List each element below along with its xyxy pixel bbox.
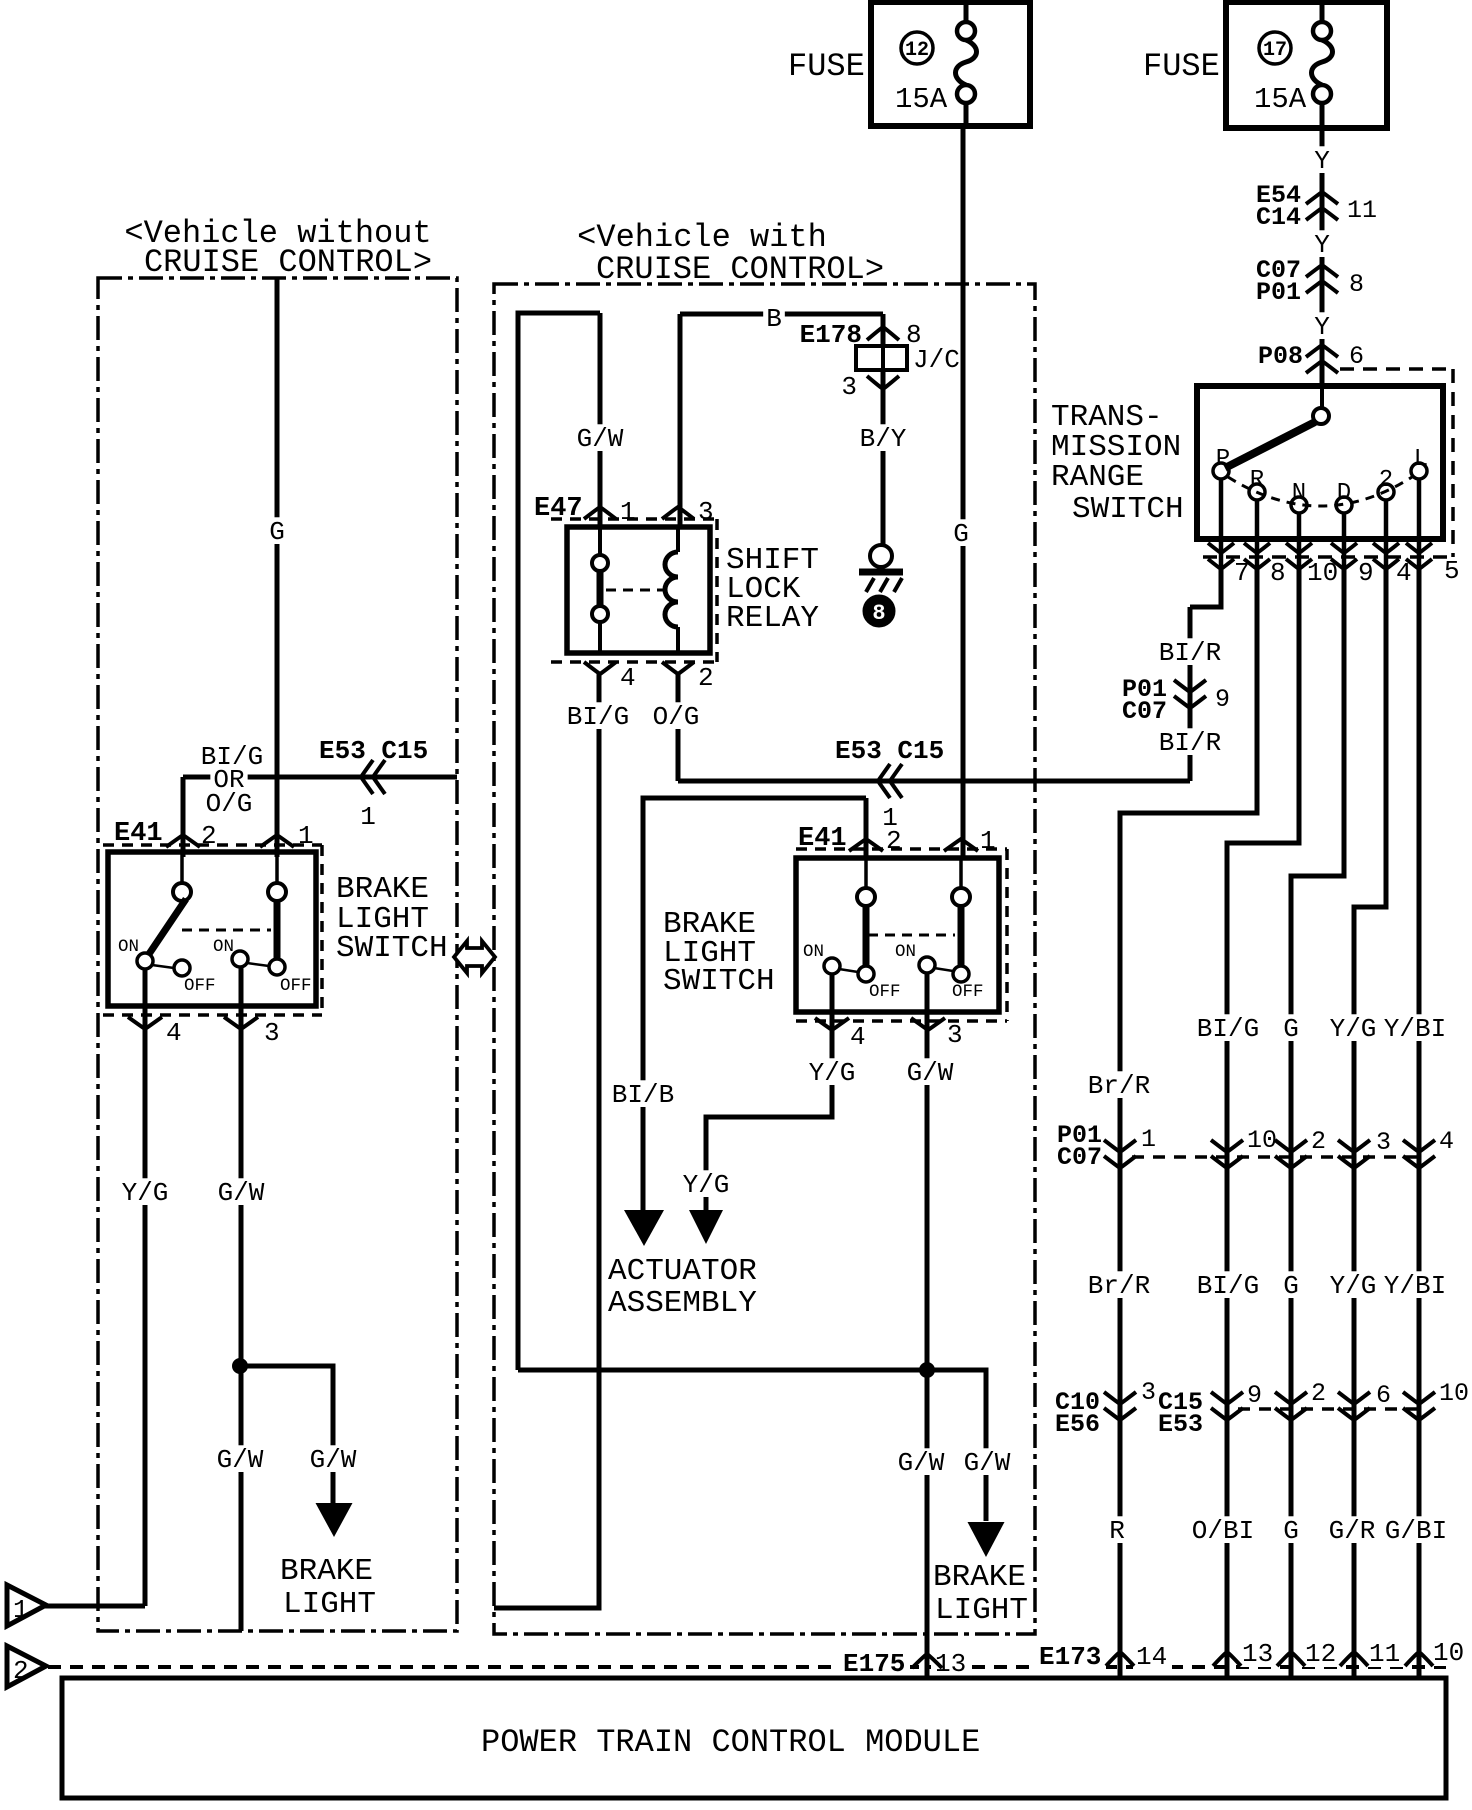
ground symbol [859,545,903,592]
svg-text:4: 4 [620,663,636,693]
TRS pin 4 stub [1384,500,1389,570]
wire Y/G from TRS pin 4 [1354,568,1386,1678]
svg-text:OFF: OFF [869,982,901,1002]
wire G (left box) [275,278,280,857]
connector P08 pin 6 [1258,342,1364,373]
svg-text:Y: Y [1314,230,1330,260]
brake light switch E41 (left) label [114,819,163,849]
svg-text:9: 9 [1358,558,1374,588]
svg-text:G/W: G/W [217,1445,264,1475]
wire B/Y to ground [881,370,886,545]
svg-text:1: 1 [360,802,376,832]
label BI/G (upper) [1194,1014,1263,1044]
label BI/G (lower) [1194,1271,1263,1301]
svg-text:CRUISE CONTROL>: CRUISE CONTROL> [596,251,884,288]
shift lock relay pin 1 [584,497,636,527]
connector E173 pins 14 13 12 11 10 [1034,1638,1469,1672]
shift lock relay pin 2 [662,662,714,693]
switch contact OFF right (middle E41) [953,966,969,982]
TRS dashed arc [1228,477,1412,506]
TRS pin 8 connector [1244,543,1286,588]
TRS pin 10 connector [1286,543,1338,588]
svg-text:Y/G: Y/G [809,1058,856,1088]
junction connector E178 pin 8 [800,314,922,350]
svg-text:11: 11 [1347,196,1377,225]
svg-text:E175: E175 [843,1649,905,1679]
svg-text:1: 1 [980,826,996,856]
brake light switch E41 (left) pin 4 [128,1017,182,1048]
TRS contact L [1411,446,1428,479]
wire G/W (left box) [239,966,244,1631]
svg-text:OFF: OFF [952,982,984,1002]
caption BRAKE LIGHT SWITCH (left) [336,872,448,966]
label OFF (middle E41 first) [869,982,901,1002]
svg-text:8: 8 [1349,270,1364,299]
label G/W (left upper) [215,1178,268,1208]
svg-text:SWITCH: SWITCH [663,964,775,999]
wire B loop left branch [518,313,600,1370]
caption SHIFT LOCK RELAY [726,543,819,636]
label B/Y [857,424,910,454]
fuse F17 circled 17 [1259,32,1291,64]
TRS pin 7 connector [1208,543,1250,588]
label G/W (left lower 2) [307,1445,360,1475]
svg-text:ON: ON [118,937,139,957]
svg-text:15A: 15A [895,83,948,116]
fuse F12 element [956,2,977,126]
svg-text:LIGHT: LIGHT [935,1593,1028,1628]
svg-text:P08: P08 [1258,342,1303,371]
svg-text:BI/R: BI/R [1159,638,1221,668]
transmission range switch box [1197,386,1443,539]
label Y/G (middle lower) [680,1170,733,1200]
svg-text:2: 2 [698,663,714,693]
svg-text:D: D [1337,480,1351,507]
brake light switch E41 (middle) label [798,824,847,854]
svg-text:G/R: G/R [1329,1516,1376,1546]
switch contact right-top (left E41) [268,852,286,901]
wire G/W branch to brake light (middle) [927,1370,986,1521]
TRS pin 8 stub [1255,500,1260,570]
caption ACTUATOR ASSEMBLY [608,1254,757,1321]
wire Y from fuse 17 to transmission range switch [1320,128,1325,386]
caption vehicle without cruise control [124,215,432,281]
TRS pin 5 connector [1406,543,1460,586]
dashed link inside middle E41 [868,934,955,937]
wire Y/G (left box) [45,968,145,1606]
label ON (left E41 second) [213,937,234,957]
svg-text:G/W: G/W [907,1058,954,1088]
svg-text:2: 2 [1311,1379,1326,1408]
svg-text:OFF: OFF [280,976,312,996]
shift lock relay pin 4 [584,662,636,693]
label G/BI (bottom) [1382,1516,1451,1546]
brake light switch E41 (middle) dashed outline [796,849,1007,1021]
svg-text:Br/R: Br/R [1088,1071,1150,1101]
svg-text:B/Y: B/Y [860,424,907,454]
svg-text:C14: C14 [1256,203,1301,232]
svg-text:14: 14 [1136,1642,1167,1672]
caption BRAKE LIGHT (left) [280,1554,376,1622]
svg-text:O/BI: O/BI [1192,1516,1254,1546]
fuse F12 box [871,2,1030,126]
TRS contact P [1213,446,1230,479]
svg-text:G/W: G/W [310,1445,357,1475]
label Y/G (col upper) [1327,1014,1380,1044]
svg-text:17: 17 [1263,39,1287,62]
label BI/R (upper) [1156,638,1225,668]
shift lock relay E47 label [534,494,583,524]
svg-text:BRAKE: BRAKE [280,1554,373,1589]
label Y (2) [1311,230,1333,260]
svg-text:SWITCH: SWITCH [1072,492,1184,527]
label BI/G OR O/G [201,742,263,819]
arrow Y/G to actuator assembly [689,1210,723,1244]
brake light switch E41 (left) pin 1 [260,821,314,851]
svg-text:RANGE: RANGE [1051,460,1144,495]
label Y/BI (col upper) [1381,1014,1450,1044]
svg-text:6: 6 [1349,342,1364,371]
svg-text:ASSEMBLY: ASSEMBLY [608,1286,757,1321]
svg-text:Y/G: Y/G [1330,1014,1377,1044]
switch contact OFF left (left E41) [174,960,190,976]
svg-text:ON: ON [895,942,916,962]
wire horizontal O/G to BI/R [678,779,1190,784]
svg-text:5: 5 [1444,556,1460,586]
svg-text:E56: E56 [1055,1410,1100,1439]
arrow BI/B to actuator assembly [624,1210,664,1246]
dashed box: vehicle without cruise control [98,278,457,1631]
svg-text:BI/B: BI/B [612,1080,674,1110]
svg-text:G: G [1283,1516,1299,1546]
svg-text:G/W: G/W [898,1448,945,1478]
svg-text:ACTUATOR: ACTUATOR [608,1254,757,1289]
wire BI/G from TRS pin 10 [1227,568,1299,1678]
svg-text:1: 1 [620,497,636,527]
label G (bottom) [1280,1516,1302,1546]
svg-text:P: P [1216,446,1230,473]
svg-text:E178: E178 [800,320,862,350]
switch contact left-top (middle E41) [857,858,875,906]
connector row P01 C07 [1057,1121,1454,1172]
svg-text:4: 4 [166,1018,182,1048]
svg-text:E173: E173 [1039,1642,1101,1672]
label G (col mid) [1280,1271,1302,1301]
switch contact ON right (left E41) [232,951,269,967]
label G/W (left lower 1) [214,1445,267,1475]
label Y/BI (lower) [1381,1271,1450,1301]
ground point 8 (black circle) [863,595,895,627]
svg-text:10: 10 [1433,1638,1464,1668]
wire Br/R from TRS pin 8 [1120,568,1257,1678]
TRS pin 4 connector [1373,543,1412,588]
svg-text:6: 6 [1376,1381,1391,1410]
connector row C15 E53 [1158,1379,1469,1439]
wire G/W branch to brake light (left) [240,1366,333,1504]
wire BI/B to actuator [643,798,866,1212]
svg-text:L: L [1414,446,1428,473]
label Br/R (lower) [1085,1271,1154,1301]
switch contact left-top (left E41) [173,852,191,901]
TRS contact R [1249,467,1265,500]
svg-text:LIGHT: LIGHT [283,1587,376,1622]
svg-text:FUSE: FUSE [1143,48,1220,85]
shift lock relay pin 3 [662,497,714,527]
switch contact ON right (middle E41) [919,957,953,973]
svg-text:G/W: G/W [577,424,624,454]
label ON (left E41 first) [118,937,139,957]
connector C07 P01 pin 8 [1256,256,1364,307]
TRS pin 5 stub [1417,479,1422,570]
svg-text:J/C: J/C [913,345,960,375]
svg-text:8: 8 [1270,558,1286,588]
caption TRANSMISSION RANGE SWITCH [1051,400,1184,527]
label ON (middle E41 second) [895,942,916,962]
fuse F17 element [1312,2,1333,128]
label G/W (relay) [574,424,627,454]
switch lever ON (left E41) [149,899,186,954]
brake light switch E41 (middle) box [796,858,999,1012]
svg-text:G: G [269,517,285,547]
svg-text:BI/G: BI/G [567,702,629,732]
label FUSE (right) [1143,48,1220,85]
svg-text:12: 12 [905,39,929,62]
svg-text:Y/BI: Y/BI [1384,1271,1446,1301]
wire G from TRS pin 9 [1291,568,1344,1678]
label B [763,304,785,334]
caption BRAKE LIGHT SWITCH (middle) [663,907,775,999]
svg-text:9: 9 [1215,685,1230,714]
label OFF (left E41 second) [280,976,312,996]
label 15A (left) [895,83,948,116]
wire Y/BI from TRS pin 5 [1417,568,1422,1678]
svg-text:1: 1 [13,1595,29,1625]
svg-text:E53: E53 [1158,1410,1203,1439]
transmission range switch dashed outline [1203,369,1453,557]
svg-text:9: 9 [1247,1381,1262,1410]
wire G/W to shift lock relay pin 1 [598,313,603,527]
svg-text:15A: 15A [1254,83,1307,116]
svg-text:CRUISE CONTROL>: CRUISE CONTROL> [144,244,432,281]
brake light switch E41 (left) pin 2 [166,821,217,851]
svg-text:E53 C15: E53 C15 [319,736,428,766]
TRS lever [1225,422,1315,468]
svg-text:BRAKE: BRAKE [933,1560,1026,1595]
label 15A (right) [1254,83,1307,116]
arrow to brake light (middle) [968,1522,1005,1557]
arrow to brake light (left) [316,1503,353,1537]
label Br/R (upper) [1085,1071,1154,1101]
dashed wire from connector 2 to PCM connectors [48,1665,1446,1669]
svg-text:13: 13 [1242,1639,1273,1669]
brake light switch E41 (middle) pin 3 [911,1018,963,1050]
wire BI/R from TRS pin 7 [1190,568,1221,781]
svg-text:ON: ON [213,937,234,957]
wire G from fuse 12 down to brake light switch E41 pin 1 [961,126,966,857]
svg-text:2: 2 [886,826,902,856]
TRS pin 9 connector [1331,543,1374,588]
connector C10 E56 pin 3 [1055,1378,1156,1439]
connector E54 C14 pin 11 [1256,181,1377,232]
TRS contact N [1291,480,1307,513]
svg-text:3: 3 [698,497,714,527]
svg-text:10: 10 [1439,1379,1469,1408]
wire BI/G from relay pin 4 [494,674,599,1608]
svg-text:OFF: OFF [184,976,216,996]
label G (left) [266,517,288,547]
brake light switch E41 (middle) pin 4 [815,1018,866,1052]
relay contact [592,527,608,653]
svg-text:BI/G: BI/G [1197,1271,1259,1301]
label OFF (left E41 first) [184,976,216,996]
switch bar left (middle E41) [863,906,870,966]
wire O/G from relay pin 2 [676,674,681,781]
svg-text:Y: Y [1314,312,1330,342]
power train control module box [62,1678,1446,1798]
brake light switch E41 (left) pin 3 [224,1017,280,1048]
dashed box: vehicle with cruise control [494,284,1035,1634]
svg-text:3: 3 [841,372,857,402]
switch contact ON left (left E41) [137,953,174,969]
svg-text:G/W: G/W [218,1178,265,1208]
svg-text:G: G [1283,1014,1299,1044]
svg-text:B: B [766,304,782,334]
TRS pin 10 stub [1297,513,1302,570]
label OFF (middle E41 second) [952,982,984,1002]
connector 2 triangle [7,1646,46,1687]
svg-text:G: G [1283,1271,1299,1301]
wire corner down to E41 pin 2 (left) [181,777,186,857]
connector 1 triangle [7,1585,46,1626]
label Y/G (left) [119,1178,172,1208]
svg-text:O/G: O/G [206,789,253,819]
fuse F12 circled 12 [901,32,933,64]
label Y/G (col lower) [1327,1271,1380,1301]
fuse F17 box [1226,2,1387,128]
svg-text:Y/G: Y/G [122,1178,169,1208]
relay dashed link [606,589,666,592]
svg-text:R: R [1109,1516,1125,1546]
label FUSE (left) [788,48,865,85]
brake light switch E41 (middle) pin 2 [849,826,902,856]
label G/R (bottom) [1326,1516,1379,1546]
svg-text:SWITCH: SWITCH [336,931,448,966]
caption POWER TRAIN CONTROL MODULE [481,1724,980,1761]
svg-text:O/G: O/G [653,702,700,732]
label BI/G (relay) [564,702,633,732]
wire BI/G OR O/G horizontal to E53 C15 [183,775,457,780]
svg-text:3: 3 [1141,1378,1156,1407]
svg-text:2: 2 [13,1656,29,1686]
svg-text:1: 1 [1141,1125,1156,1154]
label G (middle) [950,519,972,549]
wire Y/G from middle E41 pin 4 [706,974,832,1212]
connector E53 C15 pin 1 (middle) [835,736,944,833]
svg-text:Br/R: Br/R [1088,1271,1150,1301]
svg-text:4: 4 [1439,1127,1454,1156]
svg-text:2: 2 [1311,1127,1326,1156]
connector E53 C15 pin 1 (left) [319,736,428,832]
switch contact right-top (middle E41) [952,858,970,906]
brake light switch E41 (middle) pin 1 [944,826,996,856]
brake light switch E41 (left) box [108,852,316,1006]
svg-text:11: 11 [1369,1639,1400,1669]
svg-text:G: G [953,519,969,549]
wire horizontal B to G/W junction [518,1368,927,1373]
svg-text:Y: Y [1314,146,1330,176]
junction connector E178 pin 3 [841,372,899,402]
svg-text:POWER TRAIN CONTROL MODULE: POWER TRAIN CONTROL MODULE [481,1724,980,1761]
switch bar (left E41 right half) [274,901,281,960]
svg-text:Y/G: Y/G [1330,1271,1377,1301]
TRS contact 2 [1378,467,1394,500]
label O/G (relay) [650,702,703,732]
svg-text:3: 3 [1376,1128,1391,1157]
svg-text:E41: E41 [114,819,163,849]
svg-text:G/BI: G/BI [1385,1516,1447,1546]
label Y (3) [1311,312,1333,342]
svg-text:4: 4 [850,1022,866,1052]
svg-text:3: 3 [264,1018,280,1048]
svg-text:12: 12 [1305,1639,1336,1669]
label G (col upper) [1280,1014,1302,1044]
svg-text:C07: C07 [1122,697,1167,726]
svg-text:BI/G: BI/G [1197,1014,1259,1044]
relay coil [665,527,678,653]
switch contact ON left (middle E41) [824,958,858,974]
svg-text:RELAY: RELAY [726,601,819,636]
shift lock relay dashed outline [551,519,717,662]
junction (left G/W) [233,1359,248,1374]
svg-text:FUSE: FUSE [788,48,865,85]
wire into TRS pivot [1320,386,1324,410]
svg-text:10: 10 [1247,1126,1277,1155]
svg-text:8: 8 [872,601,885,626]
label G/W (middle lower 1) [895,1448,948,1478]
switch bar right (middle E41) [958,906,965,966]
wire G/W from middle E41 pin 3 [925,973,930,1678]
label ON (middle E41 first) [803,942,824,962]
svg-text:C07: C07 [1057,1143,1102,1172]
svg-text:Y/G: Y/G [683,1170,730,1200]
dashed link inside left E41 [182,929,271,932]
switch contact OFF right (left E41) [269,959,285,975]
wire riser to E41 middle pin 2 [864,798,869,857]
TRS pivot [1313,408,1329,424]
caption vehicle with cruise control [577,219,884,288]
junction (middle G/W) [920,1363,935,1378]
label Y/G (middle upper) [806,1058,859,1088]
svg-text:ON: ON [803,942,824,962]
svg-text:Y/BI: Y/BI [1384,1014,1446,1044]
switch contact OFF left (middle E41) [858,966,874,982]
label BI/R (lower) [1156,728,1225,758]
label R (bottom) [1106,1516,1128,1546]
label G/W (middle upper) [904,1058,957,1088]
label G/W (middle lower 2) [961,1448,1014,1478]
label BI/B [609,1080,678,1110]
TRS pin 7 stub [1219,479,1224,570]
shift lock relay box [567,527,710,653]
svg-text:R: R [1250,467,1264,494]
double arrow between sections [454,941,495,973]
caption BRAKE LIGHT (middle) [933,1560,1028,1628]
svg-text:3: 3 [947,1020,963,1050]
wire B horizontal [680,314,883,527]
label Y (1) [1311,146,1333,176]
svg-text:BI/R: BI/R [1159,728,1221,758]
connector P01 C07 pin 9 [1122,675,1230,726]
